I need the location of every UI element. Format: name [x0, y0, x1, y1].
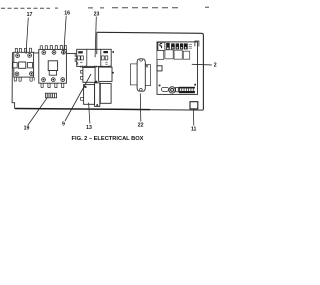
relay K4 (lower right) [100, 83, 111, 103]
C1 mid row windows [13, 63, 17, 68]
board relay RY with glyph [158, 42, 165, 50]
C2 coil window [48, 61, 57, 71]
terminal row (dark squares) [171, 43, 175, 49]
svg-text:17: 17 [27, 12, 33, 18]
svg-text:13: 13 [86, 125, 92, 131]
svg-text:16: 16 [64, 10, 70, 16]
K3 left lug [81, 97, 84, 100]
leader to 11 [192, 109, 194, 125]
leader to 9 [65, 74, 91, 121]
svg-text:23: 23 [94, 11, 100, 17]
leader to 22 [139, 93, 142, 121]
C1 top terminal tabs [15, 48, 32, 52]
center channel strip [95, 83, 100, 107]
buzzer [169, 87, 175, 93]
terminal strip TB1 [179, 87, 195, 93]
junction between relays [96, 81, 98, 83]
C1 top screws [16, 54, 20, 58]
board screws [159, 85, 161, 87]
C1 body [14, 52, 34, 77]
transformer (item 23) [75, 49, 114, 67]
grommet plug (item 11) [190, 102, 198, 109]
C2 top terminal tabs [40, 45, 67, 49]
svg-text:11: 11 [191, 126, 197, 132]
screw dot right of transformer [112, 51, 114, 53]
junction dot on leader 9 [85, 86, 87, 88]
leader to 19 [28, 98, 47, 125]
left edge component [157, 66, 162, 71]
leader to 17 [26, 18, 28, 54]
C1 bottom screws [15, 72, 19, 76]
C2 top screws [42, 51, 46, 55]
C2 bottom screws [42, 78, 46, 82]
capacitor (item 22) [137, 59, 145, 92]
C1 bottom tabs [14, 77, 34, 81]
leader to 2 [192, 63, 212, 66]
C2 bottom tabs [41, 83, 64, 87]
relay K2 [99, 67, 114, 81]
dark component [166, 43, 170, 50]
electrical box outline [12, 32, 203, 110]
right winding marks [103, 51, 108, 53]
top-right bracket [195, 41, 199, 46]
svg-text:19: 19 [24, 125, 30, 131]
small rect [176, 87, 179, 91]
contactor C1 (item 17) [13, 48, 34, 81]
svg-text:2: 2 [214, 63, 217, 69]
light marks TB [189, 45, 192, 49]
top dashed page edge [1, 7, 212, 8]
capacitor bracket [130, 64, 150, 86]
left side lugs [75, 54, 77, 62]
K1 left lugs [81, 71, 83, 80]
svg-text:9: 9 [62, 122, 65, 128]
auxiliary block (item 19) [45, 93, 56, 98]
box step edge visible through transformer gap [96, 49, 98, 54]
svg-text:FIG. 2 – ELECTRICAL BOX: FIG. 2 – ELECTRICAL BOX [72, 136, 144, 142]
bottom tabs [81, 66, 110, 68]
jumper oval [162, 87, 169, 91]
leader to 13 [89, 103, 90, 124]
leader to 16 [64, 16, 66, 54]
left winding marks [78, 51, 83, 53]
K2 right screw dot [112, 72, 114, 74]
svg-text:22: 22 [138, 123, 144, 129]
leader to 23 [95, 17, 96, 58]
relay K3 (lower left, item 13 target) [81, 85, 95, 105]
C2 body [39, 49, 67, 83]
box bottom edge (thick) [15, 109, 150, 110]
control board U1 (item 2) [157, 41, 199, 94]
relay K1 (item 9 target) [81, 68, 96, 83]
contactor C2 (item 16) [39, 45, 67, 87]
relay row below [157, 51, 164, 60]
